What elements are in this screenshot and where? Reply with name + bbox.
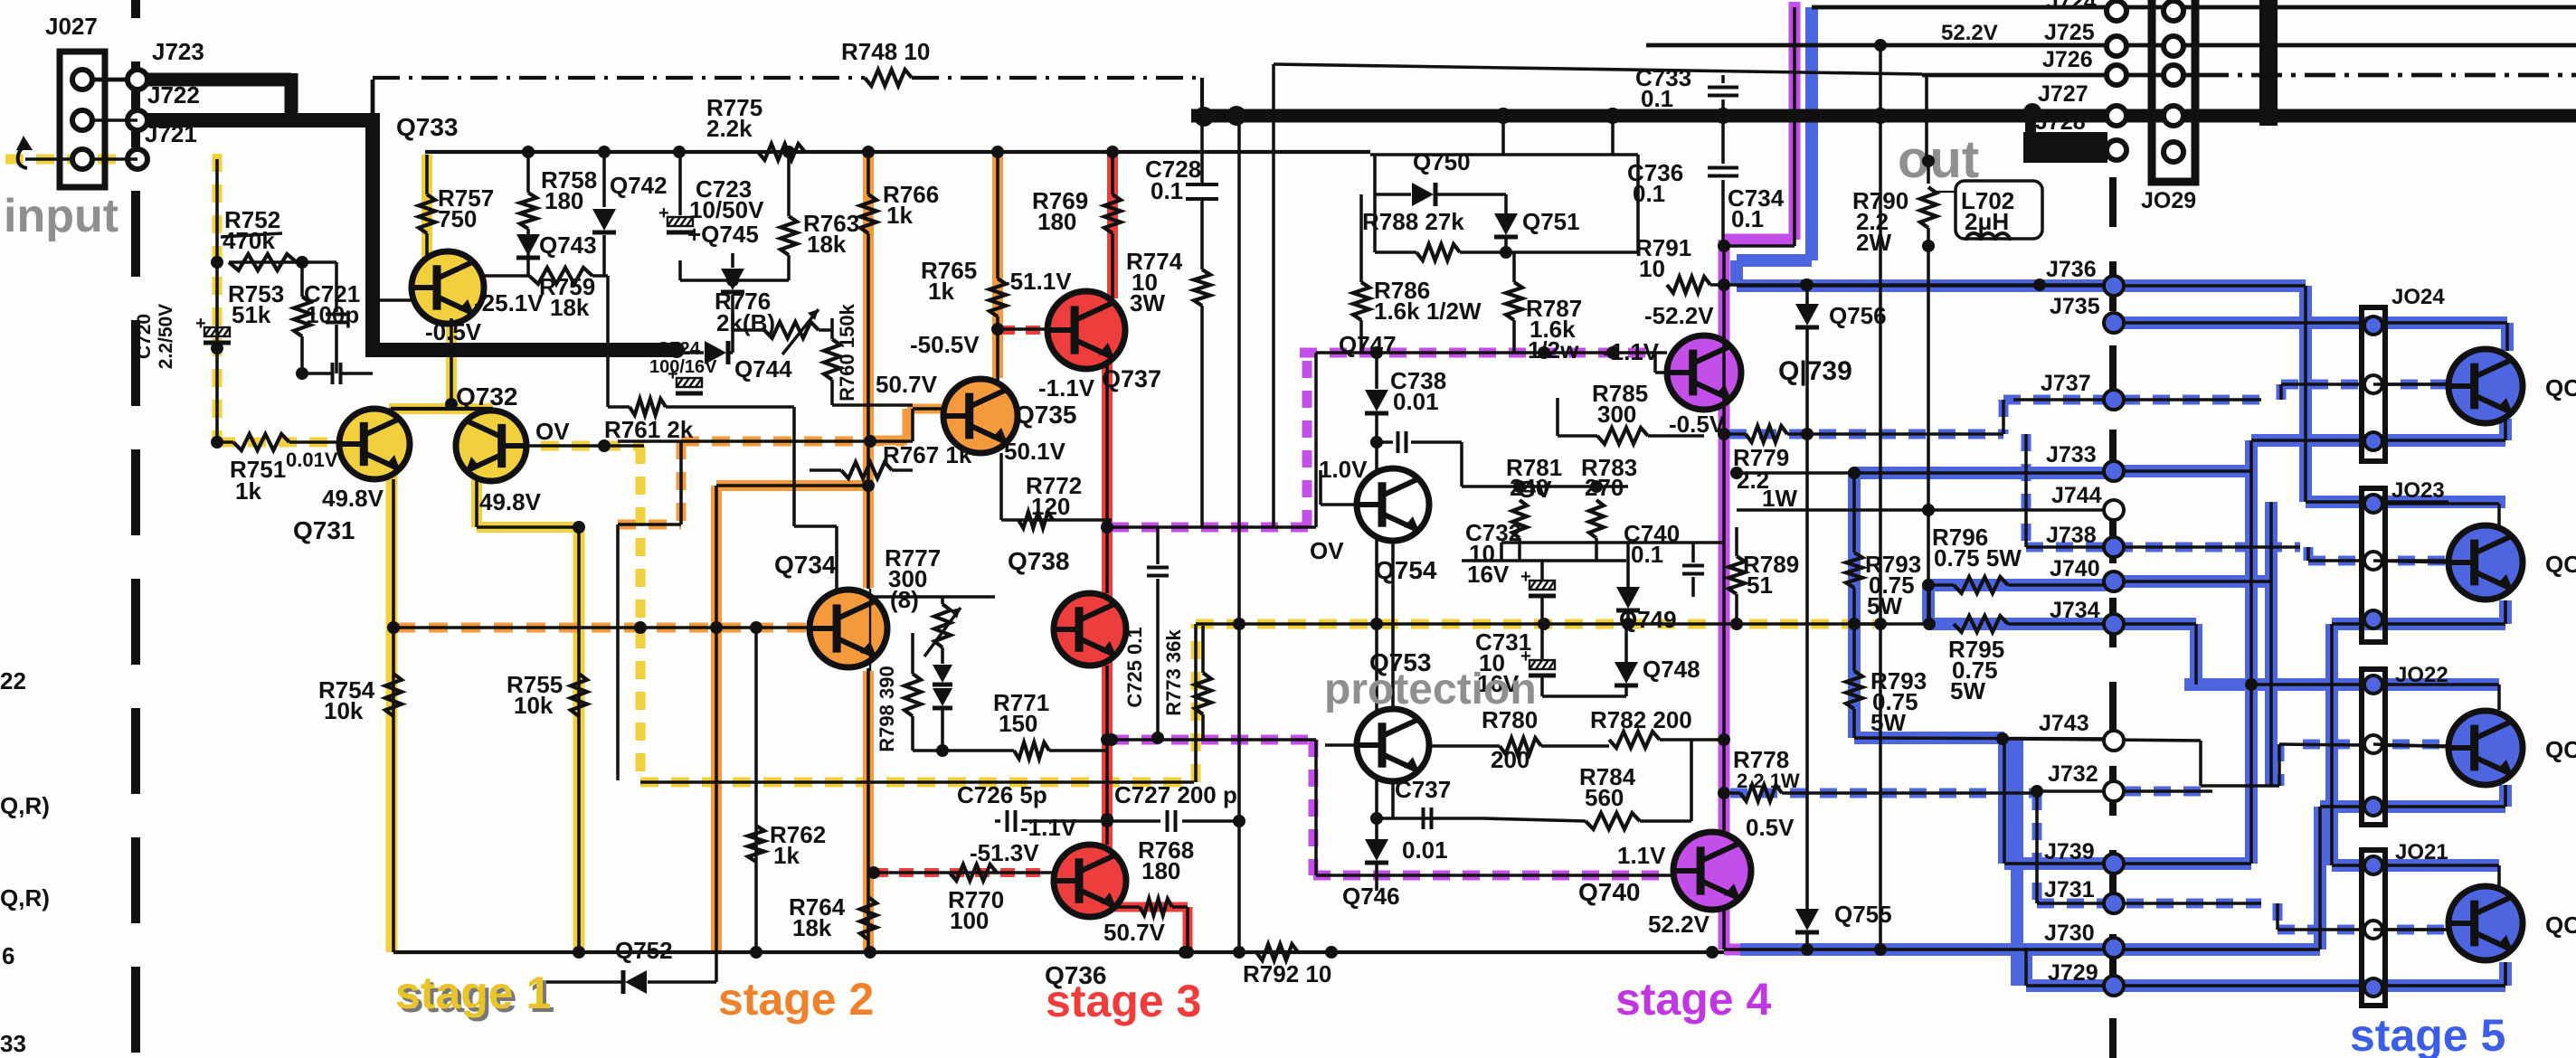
svg-text:J729: J729	[2048, 960, 2098, 986]
svg-text:J740: J740	[2050, 556, 2100, 581]
wire Q737 base	[991, 323, 1047, 335]
capacitor C738	[1370, 431, 1462, 486]
label -0.5V b	[1669, 411, 1726, 438]
transistor Q737	[1047, 291, 1125, 369]
svg-text:1W: 1W	[1762, 485, 1797, 512]
wire L702 drop	[1925, 75, 1928, 161]
svg-text:Q|739: Q|739	[1778, 356, 1852, 386]
transistor Q740	[1673, 832, 1751, 910]
svg-text:OV: OV	[535, 418, 570, 445]
svg-text:0.75 5W: 0.75 5W	[1934, 544, 2022, 572]
resistor R760	[824, 303, 913, 405]
svg-text:QC: QC	[2545, 551, 2576, 578]
label J027	[45, 13, 98, 40]
svg-text:49.8V: 49.8V	[322, 485, 384, 512]
svg-text:-1.1V: -1.1V	[1020, 814, 1077, 841]
svg-text:Q731: Q731	[293, 516, 355, 544]
svg-text:+: +	[1520, 647, 1531, 666]
svg-text:C726 5p: C726 5p	[957, 781, 1047, 808]
stage 5 dashed base drive 3	[2124, 744, 2448, 791]
label OV c	[1310, 537, 1344, 564]
wire purple black under	[1718, 7, 1795, 949]
label -1.1V	[1038, 374, 1095, 401]
svg-text:5W: 5W	[1870, 709, 1906, 736]
wire QC1 emitter	[2251, 419, 2505, 864]
label OV a	[535, 418, 570, 445]
svg-text:2.2k: 2.2k	[706, 115, 753, 142]
stage 5 highlight J729 left riser	[2011, 739, 2023, 986]
stage 1 highlight solid Q733 branch	[389, 155, 493, 409]
svg-text:1k: 1k	[928, 278, 954, 305]
transistor Q732	[456, 411, 526, 481]
svg-text:Q750: Q750	[1413, 148, 1471, 175]
transistor QC1	[2448, 349, 2523, 423]
resistor R786	[1353, 194, 1482, 353]
resistor R758	[520, 152, 597, 229]
transistor Q736	[1054, 845, 1126, 917]
svg-text:-51.1V: -51.1V	[1002, 268, 1072, 295]
svg-text:Q,R): Q,R)	[0, 792, 50, 819]
wire Q735C down	[869, 589, 871, 671]
resistor R766	[860, 152, 939, 486]
resistor R784	[1483, 740, 1691, 829]
label QC3	[2545, 736, 2576, 763]
label Q745	[687, 221, 759, 248]
resistor R778	[1730, 746, 2037, 801]
resistor R751	[211, 434, 341, 505]
svg-text:JO21: JO21	[2395, 840, 2448, 864]
inductor L702 box	[1956, 181, 2042, 241]
wire Q754 vert	[1391, 541, 1395, 709]
wire L702 links	[1936, 191, 1956, 193]
wire J734 right	[2124, 624, 2196, 685]
svg-text:stage 1: stage 1	[395, 968, 551, 1018]
transistor QC3	[2448, 711, 2523, 785]
svg-text:Q743: Q743	[539, 231, 597, 259]
wire purple upper	[1112, 346, 1667, 527]
resistor R788	[1362, 208, 1506, 260]
wire trunk x2216	[2003, 738, 2006, 864]
stage 1 highlight emitter rails	[392, 473, 579, 952]
svg-text:180: 180	[1141, 857, 1180, 884]
wire J726 rail	[1922, 73, 2576, 78]
stage 4 dashed drive lower	[1112, 740, 1669, 875]
resistor R753	[228, 262, 310, 373]
svg-text:560: 560	[1585, 784, 1624, 811]
stage 5 highlight emitter4 J729	[2026, 948, 2505, 986]
label -50.5V	[910, 331, 980, 358]
transistor Q735	[943, 379, 1018, 453]
resistor R757	[419, 155, 494, 259]
svg-text:stage 4: stage 4	[1615, 974, 1772, 1025]
connector J021	[2362, 840, 2448, 1006]
label C738	[1390, 367, 1446, 415]
wire QC2 base	[2373, 561, 2448, 562]
resistor R765	[921, 152, 1006, 329]
thick wire vertical drop	[365, 113, 380, 353]
svg-text:100/16V: 100/16V	[649, 357, 717, 377]
pin J721	[128, 120, 197, 169]
wire Q732 base	[526, 439, 644, 452]
svg-text:50.1V: 50.1V	[1004, 438, 1066, 465]
wire prot h620	[1462, 559, 1626, 562]
label Q732	[456, 383, 518, 411]
svg-text:R761 2k: R761 2k	[604, 416, 694, 443]
svg-text:Q755: Q755	[1834, 901, 1892, 928]
wire QC1 base	[2373, 383, 2448, 386]
svg-text:470k: 470k	[223, 227, 275, 254]
label Q740	[1578, 878, 1641, 906]
wire rail 168	[425, 150, 1370, 154]
svg-text:100: 100	[950, 907, 989, 934]
label 0.5V	[1746, 814, 1795, 841]
svg-text:C727 200 p: C727 200 p	[1114, 781, 1237, 808]
pin J732	[2048, 761, 2124, 801]
svg-text:1/2w: 1/2w	[1528, 336, 1579, 364]
stage 5 highlight R796 R795 loop	[1928, 585, 2114, 624]
svg-text:J726: J726	[2042, 47, 2093, 72]
wire trunk x2549	[2306, 286, 2448, 502]
label stage 2	[718, 974, 874, 1025]
svg-text:R798 390: R798 390	[876, 666, 898, 751]
wire R761 feedback	[608, 276, 867, 622]
capacitor C723	[658, 152, 764, 232]
capacitor C731b	[1520, 647, 1556, 696]
wire Q739 base	[1655, 353, 1667, 373]
label R775	[706, 94, 762, 142]
svg-text:270: 270	[1585, 474, 1624, 501]
label input	[4, 190, 118, 242]
label C732	[1465, 519, 1521, 588]
capacitor C731a	[1520, 561, 1556, 661]
wire prot left	[1373, 155, 1377, 252]
svg-text:180: 180	[545, 187, 583, 214]
label Q733	[396, 113, 459, 141]
diode Q746	[1342, 839, 1400, 910]
svg-text:49.8V: 49.8V	[479, 488, 542, 515]
label 52.2V b	[1648, 911, 1710, 938]
diode Q742	[592, 152, 668, 276]
svg-text:J727: J727	[2038, 81, 2088, 107]
pot R776	[715, 288, 832, 354]
wire input stub	[25, 157, 72, 161]
svg-text:-52.2V: -52.2V	[1644, 302, 1714, 329]
junction bus dots	[1194, 106, 1889, 127]
svg-text:J723: J723	[152, 38, 204, 65]
svg-text:2μH: 2μH	[1965, 208, 2009, 235]
pin J727	[2038, 81, 2126, 126]
capacitor C724	[649, 339, 717, 393]
svg-text:150: 150	[999, 710, 1037, 737]
label 50.7V b	[1103, 919, 1166, 946]
label QC4	[2545, 912, 2576, 939]
bottom rail right	[1724, 948, 2117, 951]
svg-text:+: +	[195, 314, 206, 334]
label frag 33	[0, 1030, 26, 1057]
label 1.1V	[1617, 842, 1666, 869]
svg-text:200: 200	[1491, 746, 1529, 773]
svg-text:-25.1V: -25.1V	[474, 289, 544, 316]
resistor R773	[1162, 626, 1211, 740]
svg-text:51: 51	[1747, 572, 1773, 599]
wire J730 row black	[2124, 948, 2320, 951]
transistor Q733	[412, 251, 484, 324]
stage 3 dashed base stub Q737	[1000, 326, 1049, 335]
stage 3 dashed base line Q736	[874, 868, 1040, 877]
label R769	[1032, 187, 1088, 235]
label 50.7V a	[876, 371, 938, 398]
resistor R793b	[1846, 618, 1927, 738]
stage 1 feedback dashed path	[541, 446, 1874, 782]
svg-text:1.0V: 1.0V	[1319, 456, 1368, 483]
wire R748 dashdot hook	[371, 80, 375, 115]
resistor R782	[1590, 706, 1724, 748]
pin J733	[2046, 442, 2124, 481]
resistor R772	[1018, 472, 1082, 528]
svg-text:0.1: 0.1	[1151, 177, 1183, 204]
svg-text:C720: C720	[134, 314, 155, 359]
wire Q733 base	[376, 298, 412, 302]
svg-text:180: 180	[1037, 208, 1076, 235]
rail dots	[522, 146, 1119, 158]
svg-text:Q732: Q732	[456, 383, 518, 411]
pin J728	[2035, 109, 2126, 160]
wire yellow fb black	[640, 618, 1887, 782]
svg-text:Q735: Q735	[1015, 401, 1077, 429]
wire q739 vert	[1556, 398, 1559, 436]
wire Q734 base	[393, 621, 809, 634]
label Q734	[774, 551, 837, 579]
transistor Q739	[1667, 335, 1741, 410]
wire QC3 collector row	[2245, 678, 2499, 710]
svg-text:1.6k 1/2W: 1.6k 1/2W	[1374, 298, 1482, 325]
svg-text:QC: QC	[2545, 912, 2576, 939]
wire J738 row	[2026, 434, 2452, 561]
stage 5 highlight R793 trunk	[1854, 473, 2114, 864]
stage 5 highlight emitter3 J730	[1740, 785, 2505, 949]
pin J731	[2044, 877, 2124, 913]
label frag 6	[2, 942, 14, 969]
pin J739	[2044, 839, 2124, 874]
wire R793 row	[1730, 467, 2114, 479]
wire C727 vertical	[1233, 109, 1245, 959]
wire QC3 base	[2373, 744, 2452, 747]
svg-text:J728: J728	[2035, 109, 2086, 135]
wire Q732 emitter	[477, 480, 585, 952]
svg-text:22: 22	[0, 667, 26, 694]
svg-text:18k: 18k	[792, 914, 832, 941]
svg-text:R780: R780	[1482, 706, 1538, 733]
pin J736	[2046, 257, 2124, 296]
svg-text:J736: J736	[2046, 257, 2097, 282]
label C734	[1728, 184, 1785, 232]
wire Q733 emitter	[380, 318, 500, 421]
svg-text:J744: J744	[2051, 483, 2102, 508]
svg-text:R773 36k: R773 36k	[1162, 629, 1185, 716]
svg-text:0.1: 0.1	[1631, 541, 1663, 568]
wire Q747 col	[1339, 331, 1397, 851]
svg-text:Q746: Q746	[1342, 883, 1400, 910]
svg-text:JO29: JO29	[2141, 188, 2196, 213]
svg-text:OV: OV	[1310, 537, 1344, 564]
label -0.5V	[425, 318, 482, 345]
wire QC4 collector row	[2332, 865, 2499, 886]
svg-text:J730: J730	[2044, 921, 2095, 946]
wire trunk x2050 bottom	[1854, 732, 2117, 745]
svg-text:QC: QC	[2545, 736, 2576, 763]
svg-text:120: 120	[1031, 493, 1070, 520]
diode Q756	[1795, 279, 1887, 440]
wire Q735 emitter	[1001, 453, 1112, 520]
svg-text:C737: C737	[1395, 776, 1451, 803]
svg-text:6: 6	[2, 942, 14, 969]
wire R771	[913, 742, 1107, 759]
svg-text:JO22: JO22	[2395, 663, 2448, 687]
svg-text:51k: 51k	[232, 301, 271, 328]
thick wire J723 bus	[145, 73, 291, 120]
svg-text:R788 27k: R788 27k	[1362, 208, 1464, 235]
transistor Q754	[1357, 468, 1429, 541]
resistor R763	[781, 152, 859, 280]
svg-text:100p: 100p	[306, 301, 359, 328]
svg-text:-51.3V: -51.3V	[970, 839, 1039, 866]
wire J743 row	[2003, 739, 2279, 786]
resistor R790	[1852, 155, 1937, 256]
wire J731 row	[2037, 793, 2452, 930]
svg-text:-0.5V: -0.5V	[1669, 411, 1726, 438]
wire prot top	[1370, 116, 1638, 155]
wire J739 row	[2004, 862, 2251, 865]
svg-text:input: input	[4, 190, 118, 242]
capacitor C733	[1635, 64, 1738, 116]
svg-text:J737: J737	[2041, 371, 2091, 396]
connector J023	[2362, 478, 2445, 642]
wire Q736 base	[867, 866, 1054, 879]
svg-text:2.2/50V: 2.2/50V	[156, 304, 176, 369]
svg-text:(8): (8)	[890, 586, 919, 613]
capacitor C720	[134, 304, 231, 369]
diode Q748	[1615, 624, 1700, 696]
wire J728 link	[2105, 148, 2109, 152]
connector J029 bars	[2152, 0, 2195, 182]
resistor R754	[318, 674, 402, 724]
label C726	[957, 781, 1047, 808]
svg-text:1k: 1k	[235, 477, 261, 505]
label -1.1V b	[1020, 814, 1077, 841]
svg-text:3W: 3W	[1130, 289, 1165, 316]
wire Q735 collector	[996, 329, 999, 381]
svg-text:J733: J733	[2046, 442, 2097, 468]
label frag 22	[0, 667, 26, 694]
svg-text:10: 10	[1639, 255, 1665, 282]
stage 3 highlight collector rail	[1107, 152, 1113, 848]
svg-text:16V: 16V	[1467, 561, 1510, 588]
svg-text:R748 10: R748 10	[841, 38, 930, 65]
label 49.8V b	[479, 488, 542, 515]
wire J729 row	[2026, 948, 2505, 986]
svg-text:0.1: 0.1	[1641, 85, 1673, 112]
svg-text:+Q745: +Q745	[687, 221, 759, 248]
wire C726 row	[995, 810, 1245, 832]
label 50.1V	[1004, 438, 1066, 465]
wire Q734 collector	[862, 479, 875, 589]
label frag QR1	[0, 792, 50, 819]
svg-text:J743: J743	[2039, 711, 2089, 736]
resistor R769	[1104, 152, 1121, 298]
label OV b	[1518, 476, 1552, 503]
svg-text:Q752: Q752	[615, 937, 673, 964]
label stage 3	[1046, 976, 1201, 1026]
svg-text:J731: J731	[2044, 877, 2095, 902]
svg-text:R767 1k: R767 1k	[883, 441, 972, 468]
label C728	[1145, 156, 1201, 204]
svg-text:R782 200: R782 200	[1590, 706, 1692, 733]
label R785	[1592, 380, 1648, 428]
wire Q731 emitter rail	[387, 479, 400, 952]
board edge dashed line left	[131, 0, 140, 1058]
label protection	[1324, 666, 1537, 713]
resistor R762	[748, 628, 826, 952]
resistor R759	[484, 268, 608, 321]
stage 5 highlight J740 J734 risers	[2114, 502, 2271, 786]
stage 1 highlight dashed input path	[5, 154, 336, 442]
wire Q735 base jog	[618, 409, 943, 448]
pin J735	[2050, 294, 2124, 333]
svg-text:240: 240	[1510, 474, 1548, 501]
capacitor C736	[1627, 116, 1738, 246]
pin J723	[128, 38, 204, 90]
wire purple lower	[1105, 733, 1674, 875]
wire J732 row	[2031, 785, 2212, 798]
connector J027 box	[60, 52, 105, 187]
label -1.1V c	[1603, 338, 1660, 365]
pin J737	[2041, 371, 2124, 410]
svg-text:33: 33	[0, 1030, 26, 1057]
label R768	[1138, 836, 1194, 884]
wire QC2 emitter	[2332, 600, 2505, 865]
wire J724 rail	[1812, 5, 2576, 10]
pin J725	[2044, 20, 2126, 56]
wire y310	[678, 260, 682, 280]
resistor R795	[1948, 616, 2124, 704]
pin J738	[2046, 523, 2124, 557]
wire RC bottoms	[229, 256, 373, 380]
svg-text:Q756: Q756	[1829, 302, 1887, 329]
resistor R761	[604, 399, 694, 443]
label R781	[1506, 454, 1562, 501]
stage 5 highlight emitter1 trunk	[2004, 419, 2505, 864]
svg-text:Q744: Q744	[734, 355, 792, 383]
resistor R792	[1243, 944, 1331, 987]
svg-text:1k: 1k	[886, 202, 913, 229]
connector J029 pins	[2164, 1, 2183, 162]
pin J726	[2042, 47, 2126, 85]
wire Q736 emitter	[1111, 907, 1194, 959]
wire QC4 base	[2373, 928, 2452, 931]
wire prot h770	[1542, 694, 1626, 698]
svg-text:Q742: Q742	[610, 172, 668, 199]
label -51.1V	[1002, 268, 1072, 295]
svg-text:Q754: Q754	[1375, 556, 1437, 584]
resistor R770	[948, 864, 1004, 934]
wire cluster links	[680, 274, 789, 287]
wire QC3 emitter	[2320, 785, 2505, 949]
wire out link	[1274, 64, 1922, 527]
svg-text:18k: 18k	[550, 294, 590, 321]
wire orange link	[716, 486, 868, 952]
wire J736 row	[1737, 284, 2306, 288]
svg-text:52.2V: 52.2V	[1941, 21, 1998, 45]
